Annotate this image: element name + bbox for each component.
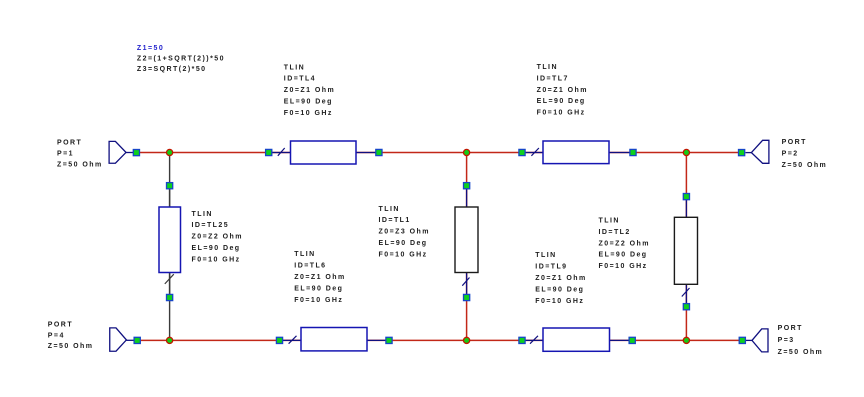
svg-text:F0=10 GHz: F0=10 GHz: [599, 263, 648, 270]
pin square TL9 pin1: [519, 337, 525, 343]
junction node bottom-right: [683, 337, 689, 343]
svg-text:PORT: PORT: [57, 140, 82, 147]
svg-text:PORT: PORT: [782, 139, 807, 146]
label TL4: [284, 64, 335, 117]
svg-text:F0=10 GHz: F0=10 GHz: [284, 110, 333, 117]
pin square TL6 pin2: [386, 337, 392, 343]
label TL7: [537, 64, 588, 117]
svg-text:EL=90 Deg: EL=90 Deg: [535, 286, 584, 293]
svg-text:F0=10 GHz: F0=10 GHz: [535, 298, 584, 305]
label TL1: [379, 206, 430, 259]
svg-text:TLIN: TLIN: [192, 211, 213, 218]
svg-text:PORT: PORT: [48, 322, 73, 329]
pin square P1: [133, 150, 139, 156]
svg-text:TLIN: TLIN: [535, 252, 556, 259]
label port P1: [57, 140, 103, 169]
svg-text:TLIN: TLIN: [599, 218, 620, 225]
TLIN TL9 (bottom-right horizontal transmission line): [525, 328, 629, 351]
TLIN TL1 (middle vertical transmission line): [455, 189, 478, 295]
pin square TL9 pin2: [629, 337, 635, 343]
svg-text:TLIN: TLIN: [379, 206, 400, 213]
equation Z1: [137, 45, 164, 52]
TLIN TL7 (top-right horizontal transmission line): [525, 141, 630, 164]
svg-text:P=1: P=1: [57, 151, 74, 158]
svg-text:Z0=Z2 Ohm: Z0=Z2 Ohm: [192, 234, 243, 241]
pin square TL7 pin1: [519, 149, 525, 155]
pin square TL25 pin1 bottom: [167, 294, 173, 300]
label TL6: [294, 251, 345, 304]
svg-text:F0=10 GHz: F0=10 GHz: [537, 110, 586, 117]
port P4: [110, 328, 134, 351]
svg-text:F0=10 GHz: F0=10 GHz: [294, 297, 343, 304]
svg-text:EL=90 Deg: EL=90 Deg: [192, 245, 241, 252]
junction node top-middle: [464, 149, 470, 155]
TLIN TL6 (bottom-left horizontal transmission line): [283, 328, 387, 351]
svg-text:EL=90 Deg: EL=90 Deg: [537, 98, 586, 105]
svg-text:ID=TL1: ID=TL1: [379, 217, 411, 224]
svg-text:EL=90 Deg: EL=90 Deg: [599, 252, 648, 259]
svg-text:TLIN: TLIN: [537, 64, 558, 71]
label port P3: [778, 325, 824, 356]
svg-text:Z3=SQRT(2)*50: Z3=SQRT(2)*50: [137, 66, 207, 73]
svg-text:P=4: P=4: [48, 333, 65, 340]
junction node top-right: [683, 149, 689, 155]
label port P4: [48, 322, 94, 351]
wire right column (red net): [685, 153, 687, 341]
wire left column (black net): [169, 153, 171, 341]
svg-text:EL=90 Deg: EL=90 Deg: [294, 285, 343, 292]
label port P2: [782, 139, 828, 169]
pin square TL6 pin1: [276, 337, 282, 343]
port P1: [109, 141, 134, 163]
svg-text:ID=TL6: ID=TL6: [294, 263, 326, 270]
svg-text:P=3: P=3: [778, 337, 795, 344]
junction node top-left: [167, 149, 173, 155]
TLIN TL2 (right vertical transmission line): [674, 200, 697, 304]
svg-text:Z0=Z1 Ohm: Z0=Z1 Ohm: [284, 87, 335, 94]
equation Z3: [137, 66, 207, 73]
pin square TL2 pin1 bottom: [683, 304, 689, 310]
equation Z2: [137, 55, 225, 62]
svg-text:P=2: P=2: [782, 150, 799, 157]
port P2: [746, 140, 769, 163]
svg-text:F0=10 GHz: F0=10 GHz: [379, 251, 428, 258]
svg-text:EL=90 Deg: EL=90 Deg: [379, 240, 428, 247]
pin square P4: [134, 337, 140, 343]
svg-text:PORT: PORT: [778, 325, 803, 332]
label TL9: [535, 252, 586, 305]
junction node bottom-middle: [464, 337, 470, 343]
TLIN TL4 (top-left horizontal transmission line): [272, 141, 376, 164]
svg-text:EL=90 Deg: EL=90 Deg: [284, 98, 333, 105]
svg-text:Z0=Z1 Ohm: Z0=Z1 Ohm: [537, 87, 588, 94]
pin square TL7 pin2: [630, 149, 636, 155]
svg-text:ID=TL7: ID=TL7: [537, 76, 569, 83]
svg-text:Z0=Z1 Ohm: Z0=Z1 Ohm: [535, 275, 586, 282]
svg-text:Z1=50: Z1=50: [137, 45, 164, 52]
pin square TL2 pin2 top: [683, 194, 689, 200]
TLIN TL25 (left vertical transmission line): [159, 188, 181, 295]
label TL25: [192, 211, 243, 264]
pin square P3: [739, 337, 745, 343]
pin square TL4 pin1: [266, 149, 272, 155]
junction node bottom-left: [167, 337, 173, 343]
wire middle column (red net): [466, 153, 468, 341]
svg-text:Z=50 Ohm: Z=50 Ohm: [782, 162, 828, 169]
svg-text:Z2=(1+SQRT(2))*50: Z2=(1+SQRT(2))*50: [137, 55, 225, 62]
svg-text:ID=TL2: ID=TL2: [599, 229, 631, 236]
port P3: [745, 329, 768, 352]
wire bottom rail (red): [137, 339, 742, 341]
svg-text:TLIN: TLIN: [284, 64, 305, 71]
svg-text:Z0=Z2 Ohm: Z0=Z2 Ohm: [599, 240, 650, 247]
svg-text:ID=TL4: ID=TL4: [284, 76, 316, 83]
pin square TL4 pin2: [376, 149, 382, 155]
label TL2: [599, 218, 650, 271]
svg-text:Z0=Z1 Ohm: Z0=Z1 Ohm: [294, 274, 345, 281]
pin square P2: [739, 150, 745, 156]
svg-text:ID=TL9: ID=TL9: [535, 264, 567, 271]
svg-text:Z=50 Ohm: Z=50 Ohm: [778, 349, 824, 356]
pin square TL25 pin2 top: [167, 183, 173, 189]
svg-text:ID=TL25: ID=TL25: [192, 222, 230, 229]
pin square TL1 pin1 bottom: [464, 294, 470, 300]
svg-text:TLIN: TLIN: [294, 251, 315, 258]
pin square TL1 pin2 top: [464, 183, 470, 189]
svg-text:Z=50 Ohm: Z=50 Ohm: [57, 162, 103, 169]
svg-text:F0=10 GHz: F0=10 GHz: [192, 256, 241, 263]
svg-text:Z=50 Ohm: Z=50 Ohm: [48, 343, 94, 350]
svg-text:Z0=Z3 Ohm: Z0=Z3 Ohm: [379, 229, 430, 236]
wire top rail (red): [136, 152, 742, 154]
